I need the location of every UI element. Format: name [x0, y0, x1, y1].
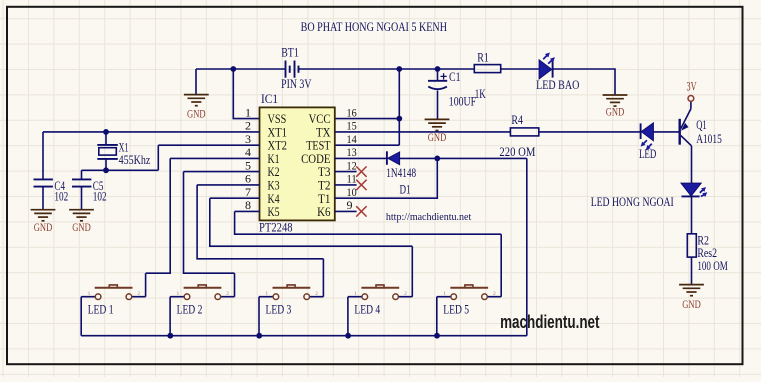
- svg-text:http://machdientu.net: http://machdientu.net: [386, 211, 471, 223]
- svg-text:6: 6: [245, 172, 251, 186]
- junction rail x=170.3: [167, 333, 173, 339]
- svg-text:12: 12: [347, 158, 357, 172]
- wire R1 to LED BAO: [501, 68, 539, 70]
- svg-text:2: 2: [226, 291, 229, 297]
- junction rail x=437.0: [434, 333, 440, 339]
- svg-text:LED 4: LED 4: [354, 302, 380, 316]
- no-connect X pin 11: [356, 180, 366, 190]
- svg-text:Res2: Res2: [697, 246, 717, 260]
- transistor Q1 A1015: [680, 101, 692, 183]
- junction C1: [435, 66, 441, 72]
- wire TX pin15 to R4: [335, 131, 511, 133]
- svg-text:14: 14: [347, 132, 357, 146]
- power 3V terminal: [688, 96, 694, 102]
- wire pin13 to D1: [335, 157, 386, 159]
- svg-text:LED: LED: [639, 147, 656, 161]
- wire button 3 drop to rail: [258, 297, 260, 336]
- svg-text:BO PHAT HONG NGOAI 5 KENH: BO PHAT HONG NGOAI 5 KENH: [301, 19, 447, 34]
- resistor R1: [474, 65, 500, 73]
- wire junction down to T1: [335, 158, 438, 198]
- wire button 2 stubs: [170, 296, 234, 298]
- svg-text:1: 1: [245, 105, 251, 119]
- wire XT2 line: [158, 145, 259, 170]
- svg-text:R4: R4: [511, 113, 523, 127]
- svg-text:10: 10: [347, 185, 357, 199]
- svg-text:2: 2: [315, 291, 318, 297]
- junction VCC rail: [396, 66, 402, 72]
- svg-text:A1015: A1015: [696, 132, 722, 146]
- svg-text:1: 1: [443, 291, 446, 297]
- wire K3 net: [197, 185, 323, 297]
- wire XT1 line: [43, 132, 260, 179]
- svg-text:1: 1: [354, 291, 357, 297]
- svg-text:GND: GND: [606, 104, 625, 118]
- svg-text:K6: K6: [317, 204, 331, 219]
- wire button 4 stubs: [348, 296, 412, 298]
- wire NC stub pin 11: [335, 184, 357, 186]
- svg-text:100UF: 100UF: [449, 95, 476, 109]
- svg-text:5: 5: [245, 158, 251, 172]
- button LED 1: [88, 285, 141, 317]
- svg-text:PIN 3V: PIN 3V: [281, 77, 311, 91]
- svg-text:LED 5: LED 5: [443, 302, 469, 316]
- junction battery/VSS: [230, 66, 236, 72]
- wire K2 net: [184, 172, 260, 297]
- junction rail x=259.2: [256, 333, 262, 339]
- ground GND C4: [31, 210, 56, 234]
- crystal X1: [97, 132, 118, 170]
- ground GND led bao: [603, 95, 628, 118]
- svg-text:2: 2: [137, 291, 140, 297]
- svg-text:Q1: Q1: [696, 118, 707, 132]
- svg-text:GND: GND: [34, 220, 53, 234]
- button LED 2: [177, 285, 230, 317]
- svg-text:102: 102: [54, 190, 68, 204]
- diode D1 1N4148: [386, 151, 416, 196]
- wire gnd drop from battery: [195, 69, 197, 95]
- wire IR led to R2: [691, 196, 693, 233]
- svg-text:1: 1: [265, 291, 268, 297]
- battery BT1: [286, 61, 299, 78]
- svg-text:11: 11: [347, 172, 357, 186]
- ground GND R2: [679, 285, 704, 311]
- svg-text:4: 4: [245, 145, 251, 159]
- svg-text:102: 102: [93, 190, 107, 204]
- svg-text:GND: GND: [187, 107, 206, 121]
- LED HONG NGOAI (IR led): [591, 183, 708, 209]
- svg-text:455Khz: 455Khz: [119, 153, 151, 167]
- ground GND battery: [184, 95, 209, 121]
- LED (base drive): [639, 123, 656, 161]
- wire button 5 stubs: [437, 296, 501, 298]
- svg-text:GND: GND: [72, 220, 91, 234]
- wire D1 to junction: [400, 157, 527, 159]
- svg-text:3: 3: [245, 132, 251, 146]
- junction crystal bottom: [103, 167, 109, 173]
- wire to button rail: [526, 158, 528, 335]
- svg-text:3V: 3V: [686, 80, 696, 94]
- svg-text:7: 7: [245, 185, 251, 199]
- wire R2 to gnd: [691, 257, 693, 285]
- button LED 5: [443, 285, 496, 317]
- wire top rail left: [196, 68, 285, 70]
- wire button 1 stubs: [81, 296, 145, 298]
- op-amp U1: IC1 PT2248 body: [260, 107, 335, 220]
- svg-text:2: 2: [245, 119, 251, 133]
- wire bottom rail: [81, 335, 527, 337]
- wire K1 net: [146, 158, 260, 296]
- svg-text:16: 16: [347, 105, 357, 119]
- capacitor C5: [72, 179, 91, 209]
- svg-text:1: 1: [88, 291, 91, 297]
- wire top rail right: [299, 68, 475, 70]
- wire pin16 stub: [335, 118, 400, 120]
- svg-text:9: 9: [347, 198, 353, 212]
- svg-text:LED HONG NGOAI: LED HONG NGOAI: [591, 194, 674, 209]
- svg-text:100 OM: 100 OM: [697, 259, 727, 273]
- junction pin16: [396, 116, 402, 122]
- wire crystal bottom line: [82, 170, 159, 179]
- svg-text:BT1: BT1: [281, 46, 299, 60]
- svg-text:K5: K5: [268, 204, 280, 219]
- wire LED to Q1 base: [653, 131, 678, 133]
- wire button 1 drop to rail: [80, 297, 82, 336]
- wire button 3 stubs: [259, 296, 323, 298]
- wire R4 to LED: [539, 131, 640, 133]
- wire pin14 stub: [335, 144, 400, 146]
- svg-text:13: 13: [347, 145, 357, 159]
- wire K5 net: [235, 211, 502, 296]
- svg-text:2: 2: [404, 291, 407, 297]
- resistor R4: [510, 128, 538, 136]
- svg-text:220 OM: 220 OM: [499, 145, 535, 159]
- capacitor C1: [437, 69, 439, 80]
- ground GND C5: [69, 210, 94, 234]
- svg-text:LED 2: LED 2: [177, 302, 203, 316]
- wire button 5 drop to rail: [436, 297, 438, 336]
- svg-text:PT2248: PT2248: [259, 221, 293, 235]
- svg-text:1K: 1K: [475, 87, 486, 101]
- junction crystal top: [103, 129, 109, 135]
- svg-text:GND: GND: [682, 297, 701, 311]
- LED BAO: [536, 53, 579, 93]
- svg-text:C1: C1: [449, 70, 461, 84]
- button LED 4: [354, 285, 407, 317]
- wire button 4 drop to rail: [347, 297, 349, 336]
- wire VSS pin1: [233, 69, 259, 119]
- svg-text:machdientu.net: machdientu.net: [500, 311, 599, 332]
- svg-text:IC1: IC1: [261, 92, 278, 106]
- wire K4 net: [210, 198, 412, 297]
- svg-text:LED 1: LED 1: [88, 302, 114, 316]
- no-connect X pin 9: [356, 206, 366, 216]
- wire VCC/TEST vertical: [398, 69, 400, 145]
- svg-text:LED BAO: LED BAO: [536, 78, 579, 92]
- svg-text:1N4148: 1N4148: [386, 166, 416, 180]
- capacitor C4: [34, 179, 53, 209]
- svg-text:15: 15: [347, 119, 357, 133]
- button LED 3: [265, 285, 318, 317]
- junction rail x=348.1: [345, 333, 351, 339]
- ground GND C1: [425, 119, 450, 144]
- wire LED BAO to gnd: [553, 69, 615, 95]
- svg-text:2: 2: [493, 291, 496, 297]
- svg-text:D1: D1: [400, 183, 411, 197]
- junction D1/T1: [434, 156, 440, 162]
- svg-text:1: 1: [177, 291, 180, 297]
- svg-text:LED 3: LED 3: [266, 302, 292, 316]
- resistor R2: [687, 234, 696, 257]
- wire NC stub pin 9: [335, 210, 357, 212]
- svg-text:8: 8: [245, 198, 251, 212]
- wire button 2 drop to rail: [169, 297, 171, 336]
- no-connect X pin 12: [356, 166, 366, 176]
- svg-text:R1: R1: [477, 50, 489, 64]
- wire NC stub pin 12: [335, 171, 357, 173]
